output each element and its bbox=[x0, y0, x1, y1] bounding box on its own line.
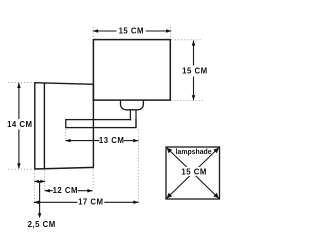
leader line 2.5cm bbox=[39, 181, 41, 216]
dimension 2.5cm line bbox=[34, 180, 45, 182]
mask behind square centre text bbox=[181, 167, 207, 176]
extension line arm left down bbox=[65, 129, 67, 140]
arrowhead 2.5cm right bbox=[40, 180, 45, 183]
arrowhead 17cm right bbox=[133, 201, 138, 205]
arrowhead 15cm right up bbox=[192, 40, 196, 45]
extension line shade top-right corner up bbox=[170, 27, 172, 39]
svg-text:13 CM: 13 CM bbox=[99, 136, 124, 145]
wall plate side face left edge bbox=[34, 83, 36, 169]
svg-text:15 CM: 15 CM bbox=[181, 168, 206, 177]
arrowhead 12cm right bbox=[87, 189, 92, 193]
extension line 14cm top bbox=[9, 82, 34, 84]
dimension 17cm line bbox=[34, 201, 78, 203]
extension line lamp front down bbox=[137, 130, 139, 202]
extension line shade top-left corner up bbox=[92, 27, 94, 39]
extension line plate right down bbox=[92, 169, 94, 191]
extension line shade top right bbox=[172, 39, 203, 41]
square corner arrowhead TL bbox=[167, 148, 173, 154]
svg-text:12 CM: 12 CM bbox=[53, 186, 78, 195]
arrowhead 13cm right bbox=[133, 139, 138, 143]
dimension 14cm line bbox=[18, 83, 20, 119]
square diagonal BL-TR bbox=[167, 148, 220, 199]
arrowhead 13cm left bbox=[65, 139, 70, 143]
svg-text:15 CM: 15 CM bbox=[119, 27, 144, 36]
arrowhead 14cm up bbox=[17, 83, 21, 88]
square corner arrowhead TR bbox=[213, 148, 219, 154]
wall plate top edge bbox=[34, 83, 94, 85]
lamp stem left line bbox=[129, 109, 131, 120]
square corner arrowhead BL bbox=[167, 193, 173, 199]
lampshade top-view square bbox=[166, 147, 220, 199]
wall plate right edge (shared with lampshade left) bbox=[92, 84, 94, 168]
arrowhead 17cm left bbox=[34, 201, 39, 205]
square diagonal TL-BR bbox=[167, 148, 220, 199]
svg-text:2,5 CM: 2,5 CM bbox=[28, 220, 56, 229]
arrowhead 12cm left bbox=[45, 189, 50, 193]
dimension 12cm line bbox=[45, 190, 53, 192]
dimension 15cm top line bbox=[93, 30, 117, 32]
arrowhead 2.5cm left bbox=[34, 180, 39, 183]
square corner arrowhead BR bbox=[213, 193, 219, 199]
arrowhead 2.5cm leader down bbox=[38, 213, 42, 218]
extension line plate inner-left down bbox=[44, 170, 46, 190]
lamp arm bbox=[66, 120, 136, 128]
svg-text:14 CM: 14 CM bbox=[7, 120, 32, 129]
lamp stem right line bbox=[135, 109, 137, 127]
wall plate bottom edge bbox=[34, 167, 94, 169]
arrowhead 14cm down bbox=[17, 163, 21, 168]
stem passes in front of arm top edge bbox=[131, 119, 135, 121]
svg-text:17 CM: 17 CM bbox=[78, 198, 103, 207]
wall plate front face left edge bbox=[43, 83, 45, 169]
arrowhead 15cm right down bbox=[192, 95, 196, 100]
arrowhead 15cm top left bbox=[93, 29, 98, 33]
dimension 15cm right line bbox=[193, 41, 195, 66]
svg-text:lampshade: lampshade bbox=[176, 149, 212, 156]
extension line plate outer-left down bbox=[34, 170, 36, 202]
socket cap bbox=[120, 100, 143, 110]
extension line shade bottom right bbox=[171, 100, 205, 102]
lampshade body bbox=[93, 40, 170, 101]
extension line 14cm bottom bbox=[9, 168, 34, 170]
svg-text:15 CM: 15 CM bbox=[182, 67, 207, 76]
dimension 13cm line bbox=[65, 140, 99, 142]
arrowhead 15cm top right bbox=[166, 29, 171, 33]
